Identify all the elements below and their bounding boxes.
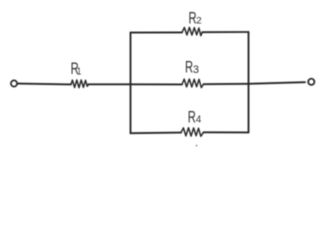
label R2 xyxy=(189,8,202,27)
wire bottom branch left xyxy=(131,132,182,135)
svg-text:1: 1 xyxy=(77,66,81,77)
node B (right bus) xyxy=(248,32,250,132)
node A (left bus) xyxy=(130,33,132,134)
stray scan dot xyxy=(196,145,197,146)
label R3 xyxy=(185,57,199,76)
terminal right xyxy=(308,79,314,85)
wire top branch left xyxy=(131,31,183,33)
wire bottom branch right xyxy=(204,131,249,133)
wire R1 to node A xyxy=(89,83,131,85)
svg-text:2: 2 xyxy=(196,16,202,27)
label R1 xyxy=(71,59,82,78)
resistor R4 xyxy=(181,128,204,137)
resistor R2 xyxy=(182,27,202,35)
svg-text:3: 3 xyxy=(193,64,199,76)
svg-text:4: 4 xyxy=(196,114,202,125)
resistor R3 xyxy=(182,79,204,88)
terminal left xyxy=(11,80,17,86)
wire top branch right xyxy=(202,31,248,33)
svg-text:R: R xyxy=(185,57,193,76)
svg-text:R: R xyxy=(188,107,196,126)
wire middle branch right xyxy=(204,83,249,85)
resistor R1 xyxy=(71,80,89,88)
wire output lead xyxy=(249,82,306,84)
wire middle branch left xyxy=(131,83,183,85)
label R4 xyxy=(188,107,202,126)
wire left lead to R1 xyxy=(18,83,71,86)
